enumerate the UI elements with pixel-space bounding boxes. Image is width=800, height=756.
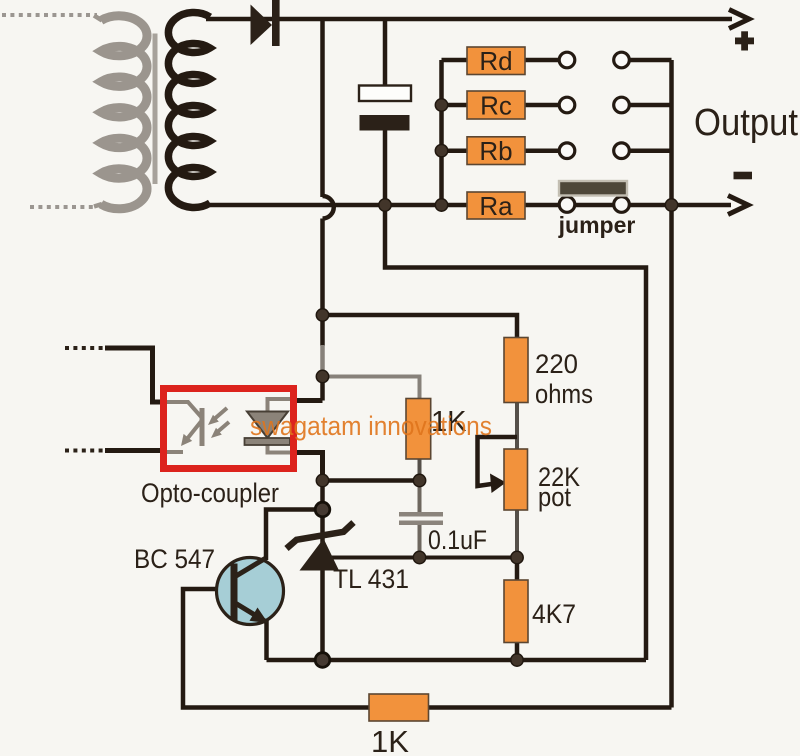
filter capacitor C1 bottom plate: [360, 115, 410, 131]
wire 1K feed (gray): [323, 377, 420, 399]
terminal Ra left: [559, 197, 575, 213]
wire hop over bottom rail: [323, 196, 334, 219]
transistor emitter diagonal: [236, 604, 266, 622]
wire Rd right stub: [525, 58, 560, 63]
node ring: TL431 anode at ground rail: [315, 653, 330, 668]
potentiometer 22K: [504, 449, 528, 510]
svg-text:Opto-coupler: Opto-coupler: [141, 478, 279, 508]
svg-text:TL 431: TL 431: [333, 564, 409, 594]
transistor base bar: [231, 564, 238, 621]
pot wiper arm: [478, 437, 518, 486]
wire hop to divider node: [320, 219, 325, 347]
wire pot bottom lead: [515, 510, 519, 558]
svg-text:Output: Output: [694, 102, 798, 144]
svg-text:Ra: Ra: [479, 191, 513, 221]
terminal Rc right: [614, 97, 630, 113]
opto-coupler LED arrowhead: [181, 434, 192, 446]
wire emitter node to 1K bottom: [323, 478, 420, 483]
pot wiper arrowhead: [490, 474, 506, 494]
terminal Rb left: [559, 143, 575, 159]
wire 1K bottom lead: [418, 459, 422, 481]
wire TL431 ground rail: [267, 658, 647, 663]
junction node: right bus at bottom rail: [665, 199, 677, 211]
resistor 4K7: [504, 580, 528, 643]
opto-coupler LED dotted lead bottom: [65, 449, 107, 453]
wire 1K node to opto collector node: [320, 377, 325, 401]
opto-coupler light arrow 2: [215, 422, 229, 434]
svg-text:ohms: ohms: [535, 379, 593, 409]
svg-text:Rd: Rd: [479, 46, 512, 76]
wire TL431 cathode branch vertical: [320, 481, 325, 661]
wire capacitor to bottom rail: [383, 131, 388, 206]
opto-coupler light arrow 1: [212, 408, 227, 421]
resistor 220 ohms: [504, 338, 528, 403]
transistor collector diagonal: [236, 559, 265, 577]
capacitor 0.1uF top lead: [418, 481, 422, 513]
wire divider node to 220 ohm top: [323, 315, 518, 338]
wire right output bus: [669, 60, 674, 708]
svg-text:4K7: 4K7: [532, 599, 576, 629]
svg-text:Rb: Rb: [479, 136, 512, 166]
svg-text:pot: pot: [538, 482, 571, 512]
TL431 zener cathode bar: [287, 523, 354, 549]
minus sign: [734, 172, 753, 180]
junction node: bank bus Rc: [435, 99, 447, 111]
junction node: cap at bottom rail: [379, 199, 391, 211]
terminal Rb right: [614, 143, 630, 159]
wire bus stub Rb row: [630, 148, 672, 153]
transformer primary dotted lead top: [2, 13, 97, 17]
capacitor 0.1uF plates: [399, 512, 443, 517]
svg-text:220: 220: [535, 349, 578, 379]
junction node: pot bottom / 4K7 top: [511, 551, 523, 563]
bottom rail arrowhead: [728, 196, 748, 215]
resistor 1K (opto load): [406, 399, 431, 460]
wire Rb right stub: [525, 148, 560, 153]
wire Rd left stub: [442, 58, 468, 63]
transformer primary dotted lead bottom: [30, 205, 97, 209]
top rail arrowhead: [729, 10, 749, 29]
wire bus stub Rd row: [630, 58, 672, 63]
TL431 anode triangle: [300, 539, 340, 571]
wire opto collector: [295, 398, 323, 403]
wire bus stub Rc row: [630, 103, 672, 108]
transformer T1 primary winding: [101, 16, 147, 209]
opto-coupler LED lead bottom wire: [105, 448, 161, 453]
diode D1: [251, 5, 273, 46]
transformer T1 secondary winding: [168, 12, 210, 207]
opto-coupler phototransistor bar: [245, 438, 291, 445]
resistor Rb: [467, 137, 525, 165]
node ring: TL431 cathode: [315, 502, 330, 517]
resistor Rc: [467, 91, 525, 119]
opto-coupler red body outline: [164, 389, 294, 469]
opto-coupler LED dotted lead top: [65, 346, 107, 350]
wire BC547 base and bottom feedback line: [183, 589, 369, 708]
transistor Q1 BC547 body: [217, 558, 284, 625]
junction node: bank bus Ra: [435, 199, 447, 211]
wire Rc left stub: [442, 103, 468, 108]
junction node: 1K feed: [316, 370, 328, 382]
svg-text:swagatam innovations: swagatam innovations: [250, 411, 492, 441]
wire TL431 ref line: [330, 556, 517, 560]
wire feedback sense: bottom rail to TL431 ground rail: [385, 205, 646, 660]
transistor emitter arrowhead: [250, 608, 269, 624]
wire 4K7 bottom lead: [515, 643, 520, 661]
resistor Ra: [467, 192, 525, 219]
svg-text:jumper: jumper: [558, 212, 636, 238]
transformer core: [153, 34, 158, 185]
junction node: 4K7 bottom: [511, 654, 523, 666]
junction node: 1K bottom: [413, 474, 425, 486]
opto-coupler phototransistor emitter lead: [268, 444, 298, 453]
opto-coupler LED lead top wire: [105, 348, 161, 402]
wire bottom feedback right segment: [428, 705, 672, 710]
wire resistor bank left bus: [439, 60, 444, 205]
wire gray segment to 1K node: [320, 345, 325, 377]
terminal Rc left: [559, 97, 575, 113]
wire Rc right stub: [525, 103, 560, 108]
svg-text:0.1uF: 0.1uF: [428, 525, 487, 555]
wire 4K7 top lead: [515, 558, 520, 581]
opto-coupler phototransistor triangle: [247, 412, 288, 439]
junction node: bank bus Rb: [435, 145, 447, 157]
wire BC547 collector: [266, 510, 316, 561]
capacitor 0.1uF bottom lead: [418, 525, 422, 558]
transformer primary lead connector bottom: [94, 204, 102, 207]
svg-text:Rc: Rc: [480, 91, 512, 121]
wire 220 to pot lead: [515, 403, 519, 450]
junction node: cap bottom at ref line: [413, 551, 425, 563]
wire top positive rail: [206, 17, 732, 22]
jumper bar: [559, 181, 627, 196]
wire BC547 emitter: [264, 620, 269, 660]
opto-coupler phototransistor collector lead: [268, 399, 298, 412]
terminal Rd right: [614, 52, 630, 68]
junction node: divider feed: [316, 309, 328, 321]
wire opto emitter: [295, 453, 323, 481]
wire divider feed vertical with hop: [320, 19, 325, 197]
svg-text:BC 547: BC 547: [134, 544, 215, 574]
resistor 1K (feedback, bottom): [369, 694, 429, 721]
terminal Rd left: [559, 52, 575, 68]
wire Rb left stub: [442, 148, 468, 153]
transformer primary lead connector top: [94, 16, 102, 21]
filter capacitor C1 top plate: [359, 86, 411, 102]
opto-coupler internal LED: [166, 402, 203, 452]
wire capacitor drop from top rail: [383, 19, 388, 86]
resistor Rd: [467, 47, 525, 75]
junction node: opto emitter: [316, 474, 328, 486]
terminal Ra right: [614, 197, 630, 213]
wire bottom negative rail: [203, 203, 731, 208]
svg-text:1K: 1K: [371, 724, 409, 756]
plus sign: [735, 38, 754, 45]
